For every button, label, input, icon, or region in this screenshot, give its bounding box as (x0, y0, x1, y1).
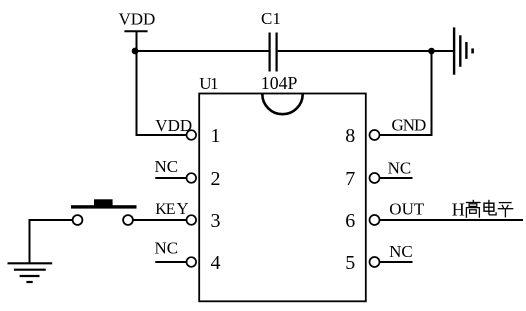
svg-text:1: 1 (211, 125, 221, 147)
svg-text:4: 4 (211, 252, 221, 274)
svg-text:Y: Y (177, 199, 189, 218)
svg-text:2: 2 (211, 168, 221, 190)
svg-text:VDD: VDD (155, 116, 192, 135)
svg-text:VDD: VDD (119, 10, 156, 29)
svg-text:OUT: OUT (389, 200, 425, 219)
svg-text:3: 3 (211, 210, 221, 232)
svg-text:7: 7 (345, 168, 355, 190)
svg-text:U1: U1 (199, 74, 218, 93)
svg-text:104P: 104P (261, 73, 298, 93)
svg-text:6: 6 (345, 210, 355, 232)
svg-text:H: H (452, 200, 465, 220)
svg-text:C1: C1 (261, 9, 281, 28)
svg-text:NC: NC (155, 157, 179, 176)
svg-text:KE: KE (155, 201, 175, 218)
svg-text:8: 8 (345, 125, 355, 147)
svg-text:NC: NC (389, 242, 413, 261)
svg-text:NC: NC (388, 159, 412, 178)
svg-text:GND: GND (392, 116, 427, 135)
svg-text:5: 5 (345, 252, 355, 274)
svg-text:NC: NC (155, 239, 179, 258)
